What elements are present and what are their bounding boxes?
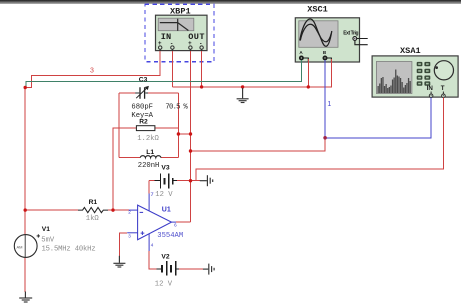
op-amp U1	[127, 194, 176, 252]
svg-text:3: 3	[128, 233, 131, 239]
wire V1 bottom to ground	[24, 258, 26, 293]
capacitor C3 (variable)	[131, 77, 188, 120]
svg-text:R1: R1	[89, 199, 98, 206]
XBP1 pin IN+	[159, 46, 162, 49]
junction feedback column y134	[189, 132, 192, 135]
window top bar	[0, 0, 461, 4]
XSC1 waveform trace 2	[300, 24, 331, 42]
XSA1 pin T	[442, 94, 446, 98]
C3 lead stubs	[135, 92, 148, 94]
svg-text:3: 3	[90, 68, 94, 75]
XBP1 terminal polarity marks	[158, 41, 202, 48]
svg-text:3554AM: 3554AM	[157, 232, 183, 240]
svg-text:XSA1: XSA1	[400, 46, 421, 56]
XSA1 body	[372, 56, 458, 97]
junction V1/R1 node	[24, 208, 27, 211]
XBP1 pin OUT+	[189, 46, 192, 49]
XBP1 bode trace	[160, 19, 189, 31]
V1 body circle	[14, 235, 37, 258]
wire V3 row	[149, 181, 200, 194]
XSC1 ext trig pin	[353, 37, 357, 41]
svg-text:L1: L1	[146, 149, 154, 156]
svg-text:5mV: 5mV	[41, 237, 55, 245]
svg-text:2: 2	[128, 210, 131, 216]
inductor L1	[138, 149, 170, 172]
R1 zigzag	[78, 208, 108, 213]
XSA1 pin IN	[429, 94, 433, 98]
ground (bus, below XBP1)	[237, 88, 249, 103]
L1 coil	[140, 156, 161, 158]
XSC1 body	[295, 18, 359, 62]
wire blue to XSA1 IN	[325, 98, 431, 138]
wire inverting node up to tank	[113, 128, 136, 210]
battery V3	[155, 174, 178, 189]
battery V2	[157, 261, 180, 275]
wire input net vertical to V1	[24, 88, 26, 235]
svg-text:Ext Trig: Ext Trig	[343, 30, 358, 36]
wire XBP1 IN- to ground bus	[171, 51, 173, 87]
XBP1 pin IN-	[171, 46, 174, 49]
svg-text:1: 1	[327, 101, 331, 108]
bode plotter XBP1	[156, 6, 208, 51]
resistor R2	[136, 119, 159, 144]
XSA1 knob	[434, 61, 453, 80]
svg-text:V1: V1	[42, 226, 50, 233]
junction R1/inverting node	[111, 208, 114, 211]
source V1	[14, 226, 95, 257]
svg-text:680pF: 680pF	[131, 103, 153, 111]
XBP1 pin OUT-	[200, 46, 203, 49]
svg-text:15.5MHz 40kHz: 15.5MHz 40kHz	[42, 246, 96, 254]
wire R2 right lead	[155, 127, 179, 129]
wire V3 node up to long output run	[196, 98, 443, 181]
junction tank to feedback	[177, 132, 180, 135]
svg-text:C3: C3	[139, 77, 148, 84]
svg-text:T: T	[441, 85, 445, 92]
wire op-amp +input to ground	[119, 233, 127, 256]
wire L1 leads	[119, 157, 178, 159]
wire ground bus horizontal	[172, 59, 331, 87]
XSC1 pin A	[299, 56, 303, 60]
svg-text:V2: V2	[161, 254, 169, 261]
wire scope B channel (blue) down	[324, 60, 326, 138]
junction input net top	[24, 86, 27, 89]
XBP1 screen	[158, 18, 194, 31]
svg-text:4: 4	[151, 242, 154, 248]
wire XBP1 IN+ to input net	[25, 51, 160, 88]
bode plotter XBP1 selection box	[145, 4, 214, 62]
svg-text:7: 7	[150, 191, 153, 198]
XSA1 spectrum bars	[378, 70, 411, 94]
svg-text:AM: AM	[17, 245, 23, 250]
oscilloscope XSC1	[295, 5, 367, 62]
V1 plus mark	[37, 234, 40, 237]
XSC1 waveform trace 1	[300, 19, 332, 46]
junction feedback column y151	[189, 149, 192, 152]
svg-text:V3: V3	[161, 165, 169, 172]
svg-text:6: 6	[174, 223, 177, 229]
ground (under V1)	[19, 292, 32, 303]
wire R1 to inverting node	[108, 209, 129, 211]
wire V2 right lead to ground	[179, 268, 203, 270]
XSA1 button centers	[418, 63, 429, 84]
svg-text:1kΩ: 1kΩ	[86, 215, 100, 223]
junction scope A ref on bus	[307, 85, 310, 88]
wire XBP1 OUT+ down to op-amp output (feedback column)	[190, 51, 192, 222]
svg-text:U1: U1	[162, 207, 171, 214]
svg-text:R2: R2	[139, 119, 148, 126]
R2 body	[136, 126, 155, 131]
XSC1 pin B ground stub	[327, 58, 331, 62]
svg-text:70.5 %: 70.5 %	[165, 103, 188, 111]
wire C3 top branch	[119, 92, 178, 94]
C3 variable arrow	[136, 87, 148, 99]
wire V1 to R1 lead	[25, 209, 78, 211]
XBP1 body	[156, 15, 208, 50]
wire tank to feedback column	[178, 133, 190, 135]
wire op-amp V- pin to V2	[149, 251, 157, 269]
spectrum analyzer XSA1	[372, 46, 458, 98]
XSC1 pin B	[323, 56, 327, 60]
svg-text:IN: IN	[427, 85, 434, 92]
svg-text:12 V: 12 V	[155, 191, 173, 199]
junction ground stub on bus	[241, 85, 244, 88]
svg-text:220nH: 220nH	[138, 162, 160, 170]
C3 plates	[140, 87, 145, 99]
junction OUT- on ground bus	[200, 85, 203, 88]
ground (op-amp + input)	[113, 256, 125, 267]
wire scope A channel (green)	[26, 60, 302, 88]
XSC1 screen	[299, 21, 338, 48]
svg-text:1.2kΩ: 1.2kΩ	[137, 135, 159, 143]
XSC1 pin A ground stub	[303, 58, 308, 62]
svg-text:12 V: 12 V	[155, 281, 173, 289]
XSA1 buttons	[417, 62, 431, 86]
wire tank right edge	[177, 93, 179, 158]
junction blue/red to XSA1	[323, 136, 327, 140]
wire XBP1 OUT- to ground bus	[201, 51, 203, 87]
svg-text:XSC1: XSC1	[307, 5, 328, 15]
ground (rotated, after V3)	[200, 175, 213, 186]
wire tank left edge	[118, 93, 120, 158]
wire op-amp output to feedback column	[176, 221, 191, 223]
ground (rotated, after V2)	[203, 264, 214, 275]
XSA1 screen	[376, 62, 412, 94]
resistor R1	[78, 199, 108, 223]
junction feedback column V3 row	[189, 179, 192, 182]
svg-text:IN: IN	[161, 32, 171, 42]
wire scope A ref pin down to ground bus	[307, 59, 309, 87]
wire feedback to XSA1 branch	[191, 138, 326, 151]
